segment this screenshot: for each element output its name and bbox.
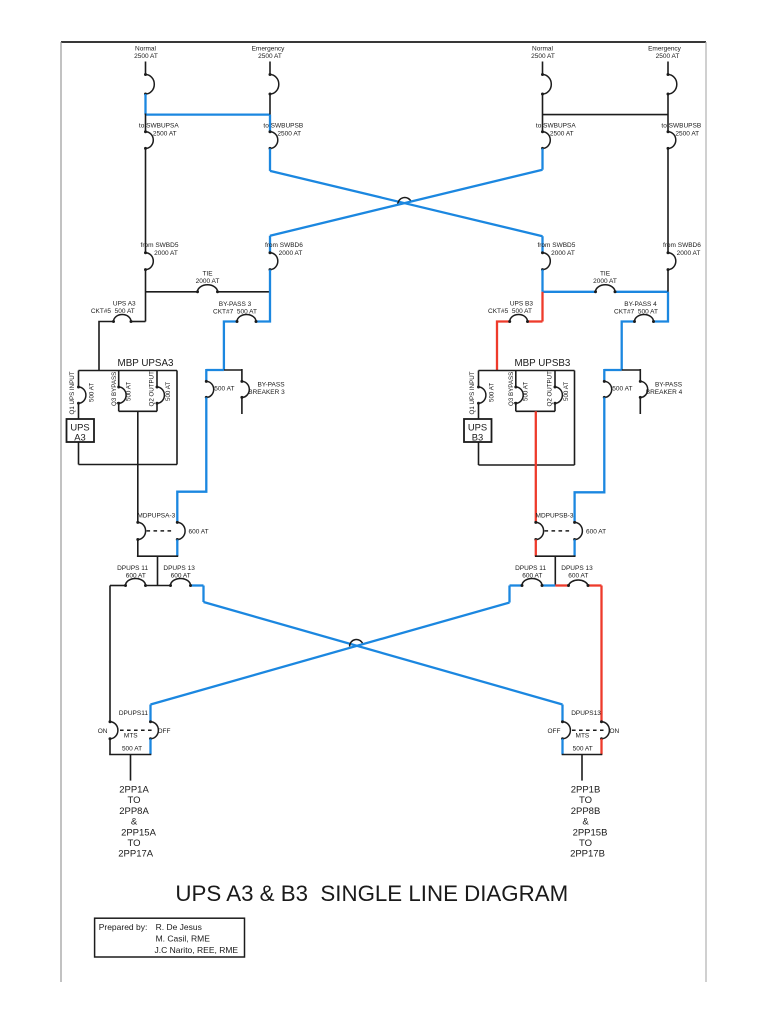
svg-text:500 AT: 500 AT [612, 385, 632, 392]
svg-text:500 AT: 500 AT [89, 383, 96, 402]
UPS A3 box [67, 419, 95, 443]
svg-text:DPUPS 11: DPUPS 11 [515, 565, 546, 572]
wire blue A-Normal to tie point [144, 94, 146, 115]
wire right MTS output stub [581, 755, 583, 781]
wire blue B-Normal to TIE junction [541, 270, 543, 292]
node Normal (A) label [134, 45, 158, 60]
wire A-Emergency above junction [269, 94, 271, 115]
page top border [61, 41, 706, 43]
breaker MDPUPSA-3 600AT left pole [136, 521, 145, 541]
wire UPS A3 CKT#5 branch [99, 322, 146, 371]
svg-text:B3: B3 [472, 432, 483, 443]
prepared-by box [95, 918, 245, 957]
svg-text:TO: TO [127, 838, 140, 849]
breaker UPS A3 CKT#5 500AT [112, 315, 133, 324]
svg-text:2000 AT: 2000 AT [677, 250, 701, 257]
wire blue TIE bus (B) [543, 291, 669, 293]
wire blue DPUPS13 (A) step down [202, 586, 204, 603]
wire blue B-Normal below breaker [541, 148, 543, 169]
wire combiner stub down [157, 556, 159, 585]
node TIE (B) label [593, 270, 617, 285]
wire blue diagonal LA landing right MTS [561, 705, 563, 722]
wire MBP output vertical (A) [137, 411, 139, 522]
svg-text:2PP1A: 2PP1A [119, 785, 149, 796]
svg-text:2000 AT: 2000 AT [196, 278, 220, 285]
svg-text:2500 AT: 2500 AT [531, 53, 555, 60]
breaker Q2 OUTPUT 500AT (B) [547, 371, 571, 412]
wire B-Normal stub [542, 62, 544, 75]
svg-text:MDPUPSB-3: MDPUPSB-3 [536, 513, 574, 520]
hop upper crossing [398, 198, 412, 206]
svg-text:2PP8A: 2PP8A [119, 806, 149, 817]
svg-text:R. De Jesus: R. De Jesus [156, 922, 202, 932]
node from SWBD5 (B) label [537, 242, 575, 257]
svg-text:Normal: Normal [135, 45, 157, 52]
svg-text:2500 AT: 2500 AT [258, 53, 282, 60]
svg-text:MTS: MTS [124, 733, 138, 740]
breaker MDPUPSB-3 600AT right pole [573, 521, 582, 541]
svg-text:500 AT: 500 AT [523, 382, 530, 401]
svg-text:600 AT: 600 AT [522, 572, 542, 579]
svg-text:600 AT: 600 AT [189, 528, 209, 535]
svg-text:UPS A3: UPS A3 [113, 300, 136, 307]
svg-text:2PP1B: 2PP1B [571, 785, 601, 796]
breaker UPS B3 CKT#5 500AT [508, 315, 529, 324]
svg-text:BY-PASS 4: BY-PASS 4 [624, 301, 657, 308]
svg-text:Normal: Normal [532, 45, 554, 52]
wire MDPUPSB-3 to combiner bus [535, 540, 576, 557]
node TIE (A) label [196, 270, 220, 285]
svg-text:2500 AT: 2500 AT [656, 53, 680, 60]
svg-text:UPS B3: UPS B3 [510, 300, 534, 307]
wire B-Emergency down to from-SWBD6 [667, 148, 669, 252]
panel MBP UPSB3 title [514, 358, 570, 369]
breaker 500AT (by-pass path 3) [205, 380, 235, 399]
breaker Emergency 2500AT (B) [667, 73, 677, 96]
wire red MBP output vertical (B) [535, 411, 537, 522]
node to SWBUPSB (B) label [661, 122, 701, 137]
svg-text:2000 AT: 2000 AT [154, 250, 178, 257]
svg-text:DPUPS 13: DPUPS 13 [561, 565, 593, 572]
wire blue diagonal D2 B-Normal to A-Emergency [270, 170, 543, 236]
svg-text:Q3 BYPASS: Q3 BYPASS [508, 372, 515, 406]
svg-text:TO: TO [579, 795, 592, 806]
svg-text:from SWBD6: from SWBD6 [265, 242, 303, 249]
wire blue diagonal LB landing left MTS [149, 705, 151, 722]
svg-text:DPUPS11: DPUPS11 [119, 710, 149, 717]
wire blue D1 landing into B-Normal [541, 236, 543, 253]
svg-text:from SWBD6: from SWBD6 [663, 242, 701, 249]
wire B-Emergency to TIE junction [667, 270, 669, 292]
svg-text:A3: A3 [74, 432, 85, 443]
svg-text:MTS: MTS [576, 733, 590, 740]
breaker Q3 BYPASS 500AT (B) [508, 371, 530, 412]
wire blue horizontal A pair connector [146, 113, 271, 115]
svg-text:MBP UPSB3: MBP UPSB3 [514, 358, 570, 369]
breaker Normal 2500AT (B) [541, 73, 551, 96]
wire horizontal B pair connector [543, 114, 669, 116]
wire DPUPS bus (B) [510, 584, 602, 586]
svg-text:500 AT: 500 AT [573, 745, 593, 752]
svg-text:CKT#7 500 AT: CKT#7 500 AT [213, 308, 257, 315]
wire below UPS B3 box [478, 442, 480, 465]
wire B-Emergency to junction [667, 94, 669, 132]
svg-text:MBP UPSA3: MBP UPSA3 [118, 358, 174, 369]
svg-text:2PP15B: 2PP15B [573, 827, 608, 838]
svg-text:Q2 OUTPUT: Q2 OUTPUT [547, 371, 554, 407]
svg-text:2500 AT: 2500 AT [675, 130, 699, 137]
svg-text:BY-PASS: BY-PASS [655, 382, 683, 389]
svg-text:Q1 UPS INPUT: Q1 UPS INPUT [469, 371, 476, 414]
svg-text:600 AT: 600 AT [126, 572, 146, 579]
node Normal (B) label [531, 45, 555, 60]
breaker DPUPS 11 600AT (B) [515, 565, 546, 587]
node from SWBD6 (A) label [265, 242, 303, 257]
node from SWBD6 (B) label [663, 242, 701, 257]
breaker to SWBUPSB 2500AT (A) [269, 130, 278, 150]
svg-text:&: & [131, 817, 138, 828]
wire MBP UPSB3 top bus [479, 370, 575, 372]
wire red UPS B3 CKT#5 branch [497, 322, 543, 371]
breaker to SWBUPSA 2500AT (B) [541, 130, 550, 150]
wire MBP UPSA3 bottom bus [79, 464, 178, 466]
breaker MDPUPSA-3 600AT right pole [176, 521, 185, 541]
wire MBP UPSB3 bottom bus [479, 464, 575, 466]
svg-text:&: & [582, 817, 589, 828]
svg-text:BY-PASS: BY-PASS [257, 382, 285, 389]
switch MTS DPUPS11 (left) [98, 710, 171, 752]
svg-text:CKT#5 500 AT: CKT#5 500 AT [91, 308, 135, 315]
svg-text:500 AT: 500 AT [489, 383, 496, 402]
wire A-Emergency stub [269, 62, 271, 75]
node to SWBUPSA (A) label [139, 122, 179, 137]
page left border [60, 42, 62, 982]
wire B-Normal to junction [542, 94, 544, 132]
node Emergency (A) label [252, 45, 286, 60]
svg-text:Q2 OUTPUT: Q2 OUTPUT [149, 371, 156, 407]
breaker BY-PASS BREAKER 4 [639, 369, 683, 414]
svg-text:DPUPS13: DPUPS13 [571, 710, 601, 717]
svg-text:TIE: TIE [202, 270, 213, 277]
wire A-Normal below junction [145, 114, 147, 132]
svg-text:2000 AT: 2000 AT [593, 278, 617, 285]
svg-text:BREAKER 3: BREAKER 3 [248, 389, 285, 396]
wire blue diagonal LA to right MTS [204, 602, 563, 705]
breaker Q1 UPS INPUT 500AT (A) [69, 371, 96, 420]
svg-text:500 AT: 500 AT [563, 382, 570, 401]
tie-bar dashed MDPUPSA-3 [147, 530, 175, 532]
breaker Emergency 2500AT (A) [269, 73, 279, 96]
svg-text:to SWBUPSA: to SWBUPSA [536, 122, 576, 129]
wire left MTS to bottom bus [109, 739, 151, 755]
svg-text:TO: TO [127, 795, 140, 806]
wire by-pass breaker 3 tee [206, 369, 242, 381]
wire A-Normal stub [145, 62, 147, 75]
tie-bar dashed MDPUPSB-3 [545, 530, 572, 532]
wire MDPUPSA-3 to combiner bus [137, 540, 178, 557]
breaker from SWBD6 2000AT (B) [667, 251, 676, 271]
svg-text:Prepared by:: Prepared by: [99, 922, 148, 932]
svg-text:500 AT: 500 AT [126, 382, 133, 401]
breaker from SWBD5 2000AT (A) [144, 251, 153, 271]
node to SWBUPSB (A) label [263, 122, 303, 137]
wire blue B bypass branch [622, 292, 668, 370]
wire blue DPUPS11 (B) step down to diagonal [508, 586, 510, 603]
svg-text:to SWBUPSA: to SWBUPSA [139, 122, 179, 129]
svg-text:OFF: OFF [548, 728, 561, 735]
breaker to SWBUPSB 2500AT (B) [667, 130, 676, 150]
wire MBP UPSA3 right edge [176, 371, 178, 465]
panel MBP UPSA3 title [118, 358, 174, 369]
title UPS A3 & B3 SINGLE LINE DIAGRAM [175, 881, 568, 906]
wire red DPUPS13 feeder down to MTS (B) [600, 586, 602, 722]
node BY-PASS 4 CKT#7 label [614, 301, 658, 315]
breaker to SWBUPSA 2500AT (A) [144, 130, 153, 150]
svg-text:BREAKER 4: BREAKER 4 [646, 389, 683, 396]
svg-text:500 AT: 500 AT [122, 745, 142, 752]
breaker BY-PASS 3 CKT#7 500AT [236, 315, 258, 324]
node from SWBD5 (A) label [141, 242, 179, 257]
wire blue down from 500AT breaker to MDPUPSB-3 [575, 397, 605, 522]
svg-text:MDPUPSA-3: MDPUPSA-3 [137, 513, 175, 520]
svg-text:600 AT: 600 AT [586, 528, 606, 535]
svg-text:500 AT: 500 AT [165, 382, 172, 401]
svg-text:DPUPS 13: DPUPS 13 [163, 565, 195, 572]
wire DPUPS bus (A) [110, 585, 204, 587]
wire by-pass breaker 4 tee [604, 369, 640, 381]
wire left MTS output stub [130, 755, 132, 781]
svg-text:CKT#7 500 AT: CKT#7 500 AT [614, 308, 658, 315]
node UPS B3 CKT#5 label [488, 300, 533, 314]
breaker TIE 2000AT (A) [196, 285, 219, 294]
svg-text:2PP17B: 2PP17B [570, 849, 605, 860]
page right border [705, 42, 707, 982]
wire right MTS to bottom bus [562, 739, 603, 755]
breaker DPUPS 11 600AT (A) [117, 565, 148, 587]
breaker Q1 UPS INPUT 500AT (B) [469, 371, 496, 420]
breaker BY-PASS 4 CKT#7 500AT [633, 315, 655, 324]
wire A-Normal down to from-SWBD5 [145, 148, 147, 252]
value 600 AT (MDPUPSB-3) [586, 528, 606, 535]
breaker DPUPS 13 600AT (B) [561, 565, 593, 587]
wire MBP UPSB3 right edge [574, 371, 576, 466]
svg-text:2PP15A: 2PP15A [121, 827, 157, 838]
svg-text:600 AT: 600 AT [171, 572, 191, 579]
node UPS A3 CKT#5 label [91, 300, 136, 314]
svg-text:Q3 BYPASS: Q3 BYPASS [111, 372, 118, 406]
svg-text:BY-PASS 3: BY-PASS 3 [219, 301, 252, 308]
wire blue diagonal D1 A-Emergency to B-Normal [270, 171, 543, 236]
svg-text:Q1 UPS INPUT: Q1 UPS INPUT [69, 371, 76, 414]
wire MBP UPSA3 top bus [79, 370, 178, 372]
wire B-Emergency stub [667, 62, 669, 75]
svg-text:2000 AT: 2000 AT [551, 250, 575, 257]
svg-text:600 AT: 600 AT [568, 572, 588, 579]
svg-text:Emergency: Emergency [252, 45, 286, 52]
wire blue A-Emergency junction to breaker [269, 115, 271, 132]
svg-text:2500 AT: 2500 AT [153, 130, 177, 137]
UPS B3 box [464, 419, 492, 443]
node BY-PASS 3 CKT#7 label [213, 301, 257, 315]
wire A-Normal through TIE junction to CKT5 branch [145, 270, 147, 322]
breaker 500AT (by-pass path 4) [603, 380, 633, 399]
svg-text:M. Casil, RME: M. Casil, RME [156, 933, 211, 943]
wire blue diagonal LB to left MTS [151, 603, 510, 705]
node Emergency (B) label [648, 45, 682, 60]
wire Q3-Q2 bottom link (A) [119, 410, 157, 412]
svg-text:to SWBUPSB: to SWBUPSB [661, 122, 701, 129]
svg-text:from SWBD5: from SWBD5 [141, 242, 179, 249]
svg-text:2000 AT: 2000 AT [279, 250, 303, 257]
svg-text:2500 AT: 2500 AT [277, 130, 301, 137]
svg-text:J.C Narito, REE, RME: J.C Narito, REE, RME [155, 945, 239, 955]
svg-text:ON: ON [98, 728, 108, 735]
svg-text:ON: ON [610, 728, 620, 735]
breaker MDPUPSB-3 600AT left pole [534, 521, 543, 541]
breaker from SWBD6 2000AT (A) [269, 251, 278, 271]
wire blue D2 landing into A-Emergency [269, 236, 271, 253]
breaker TIE 2000AT (B) [594, 285, 617, 294]
svg-text:TO: TO [579, 838, 592, 849]
switch MTS DPUPS13 (right) [548, 710, 620, 752]
wire blue down from 500AT breaker to MDPUPSA-3 [177, 397, 206, 522]
breaker Q3 BYPASS 500AT (A) [111, 371, 133, 412]
wire combiner stub down (B) [554, 556, 556, 585]
svg-text:2500 AT: 2500 AT [550, 130, 574, 137]
node to SWBUPSA (B) label [536, 122, 576, 137]
wire TIE bus (A) [146, 291, 271, 293]
svg-text:TIE: TIE [600, 270, 611, 277]
breaker DPUPS 13 600AT (A) [163, 565, 195, 587]
node MDPUPSB-3 label [536, 513, 574, 520]
svg-text:DPUPS 11: DPUPS 11 [117, 565, 148, 572]
hop lower crossing [350, 639, 363, 646]
node MDPUPSA-3 label [137, 513, 175, 520]
breaker BY-PASS BREAKER 3 [240, 369, 285, 414]
wire DPUPS11 feeder down to MTS (A) [109, 586, 111, 722]
node 2PP1A feeder list [118, 785, 156, 860]
svg-text:OFF: OFF [158, 728, 171, 735]
wire blue A-Emergency below breaker [269, 148, 271, 171]
wire blue A-Emergency through TIE junction down [224, 270, 270, 370]
svg-text:from SWBD5: from SWBD5 [537, 242, 575, 249]
svg-text:500 AT: 500 AT [214, 385, 234, 392]
svg-text:2PP8B: 2PP8B [571, 806, 601, 817]
value 600 AT (MDPUPSA-3) [189, 528, 209, 535]
svg-text:Emergency: Emergency [648, 45, 682, 52]
breaker Q2 OUTPUT 500AT (A) [149, 371, 173, 412]
breaker from SWBD5 2000AT (B) [541, 251, 550, 271]
wire below UPS A3 box [78, 442, 80, 465]
svg-text:to SWBUPSB: to SWBUPSB [263, 122, 303, 129]
svg-text:CKT#5 500 AT: CKT#5 500 AT [488, 308, 532, 315]
svg-text:2500 AT: 2500 AT [134, 53, 158, 60]
breaker Normal 2500AT (A) [144, 73, 154, 96]
wire red B TIE junction down [541, 292, 543, 322]
svg-text:2PP17A: 2PP17A [118, 849, 154, 860]
svg-text:UPS A3 & B3 SINGLE LINE DIAGR: UPS A3 & B3 SINGLE LINE DIAGRAM [175, 881, 568, 906]
wire Q3-Q2 bottom link (B) [516, 410, 555, 412]
node 2PP1B feeder list [570, 785, 607, 860]
